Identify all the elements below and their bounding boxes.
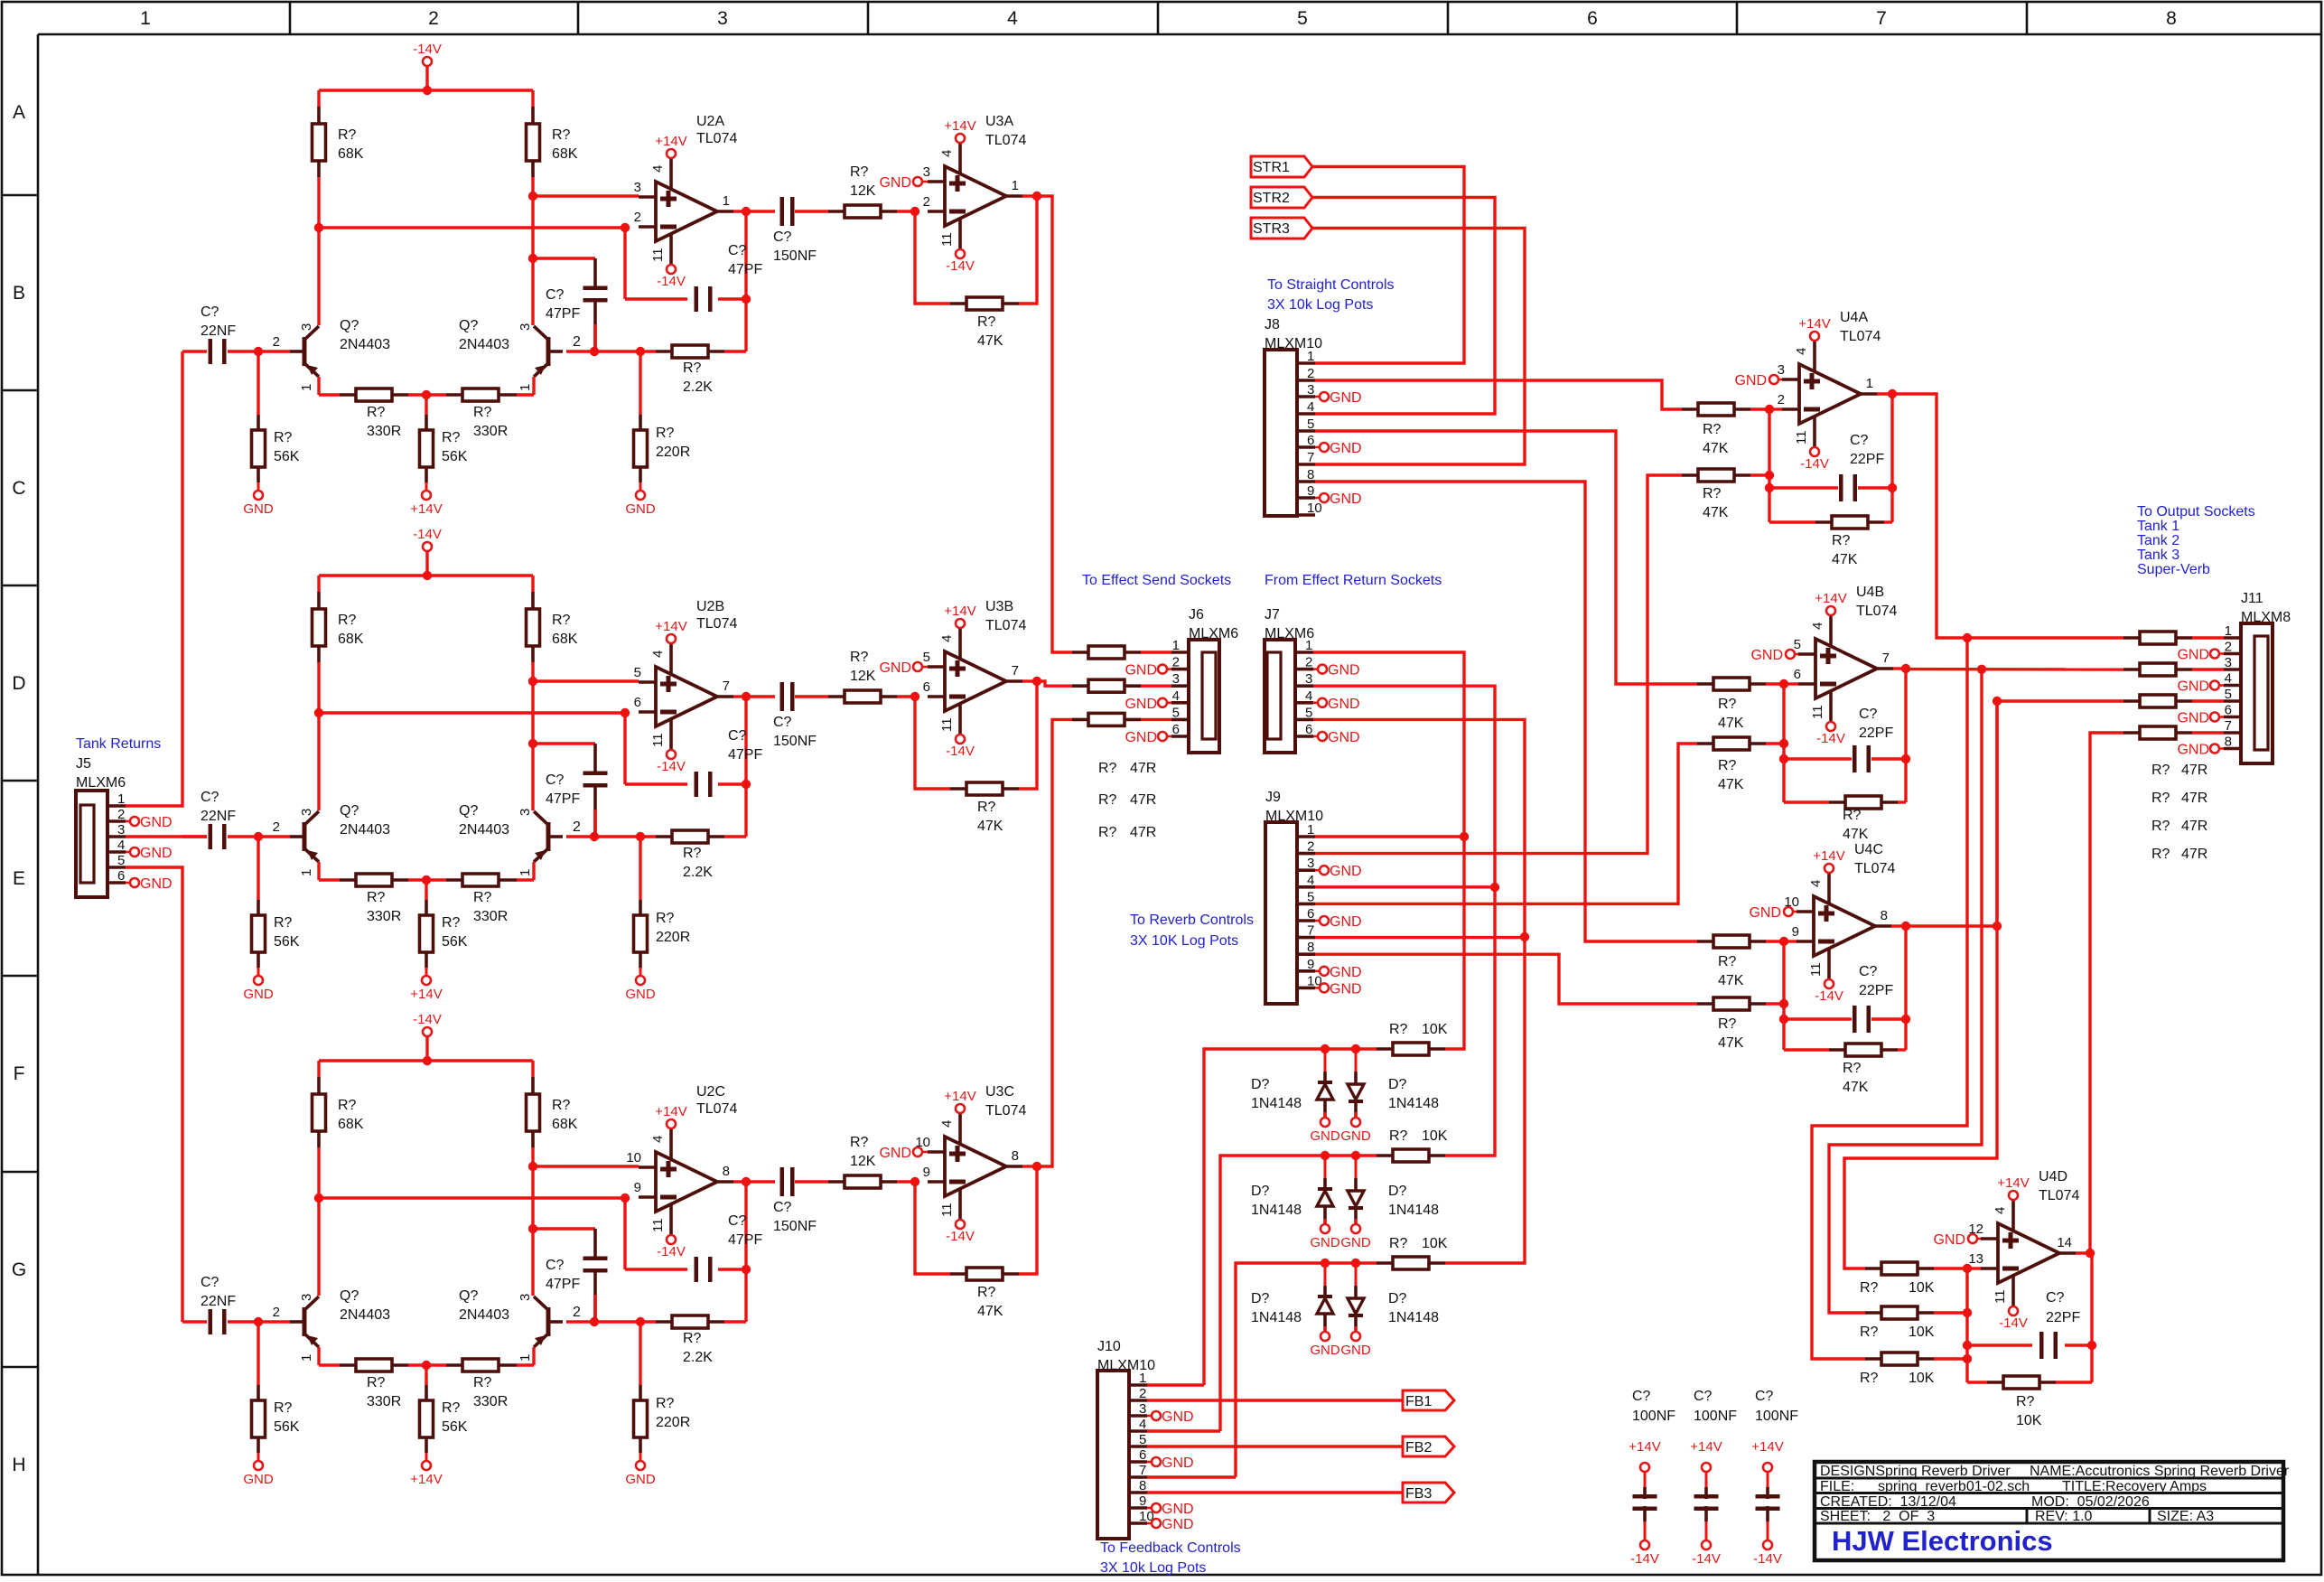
svg-text:C?: C? bbox=[1755, 1389, 1774, 1404]
svg-text:12K: 12K bbox=[850, 1154, 876, 1169]
wire Tank3 branch down to U4D input 1 bbox=[1844, 701, 1997, 1268]
svg-text:R?: R? bbox=[977, 1285, 996, 1300]
svg-text:4: 4 bbox=[1307, 873, 1314, 888]
svg-text:47PF: 47PF bbox=[728, 262, 762, 277]
svg-text:REV: 1.0: REV: 1.0 bbox=[2035, 1509, 2093, 1524]
svg-text:FB3: FB3 bbox=[1405, 1486, 1432, 1502]
resistor R? input 1 (U4A) bbox=[1682, 407, 1698, 411]
svg-text:5: 5 bbox=[1297, 8, 1308, 29]
svg-text:A: A bbox=[13, 102, 25, 123]
svg-text:E: E bbox=[13, 868, 25, 889]
wire U4A output to J11 pin 1 resistor bbox=[1892, 394, 2123, 638]
svg-text:7: 7 bbox=[1882, 651, 1890, 666]
svg-text:8: 8 bbox=[1881, 908, 1888, 923]
svg-text:R?: R? bbox=[473, 405, 492, 420]
resistor R? 47R send 2 bbox=[1072, 684, 1088, 688]
ground flag diode right (clamp 1) bbox=[1351, 1118, 1360, 1127]
svg-text:+14V: +14V bbox=[655, 619, 686, 634]
svg-text:+14V: +14V bbox=[410, 987, 442, 1002]
connector J5 MLXM6 Tank Returns bbox=[76, 791, 107, 897]
svg-text:9: 9 bbox=[1139, 1493, 1146, 1509]
svg-text:U2A: U2A bbox=[696, 114, 724, 129]
svg-text:4: 4 bbox=[1305, 688, 1312, 704]
svg-text:6: 6 bbox=[634, 695, 641, 710]
svg-text:11: 11 bbox=[939, 1203, 955, 1217]
svg-text:11: 11 bbox=[1808, 962, 1824, 977]
svg-text:3: 3 bbox=[1778, 362, 1785, 378]
svg-text:To Straight Controls: To Straight Controls bbox=[1267, 277, 1395, 293]
svg-text:5: 5 bbox=[634, 665, 641, 680]
svg-text:TL074: TL074 bbox=[985, 1103, 1026, 1119]
svg-text:47K: 47K bbox=[1718, 1035, 1744, 1051]
svg-text:R?: R? bbox=[1098, 761, 1117, 776]
ground flag at U4B non-inverting input bbox=[1794, 653, 1798, 656]
wire U3B output to 47R send resistor 2 bbox=[1037, 681, 1072, 686]
svg-text:11: 11 bbox=[1794, 430, 1809, 445]
svg-text:1N4148: 1N4148 bbox=[1388, 1096, 1439, 1111]
svg-text:3: 3 bbox=[634, 180, 641, 195]
svg-text:FB1: FB1 bbox=[1405, 1394, 1432, 1409]
svg-text:U3A: U3A bbox=[985, 114, 1013, 129]
op-amp U3B TL074 (block B) bbox=[945, 651, 1006, 711]
svg-text:R?: R? bbox=[1389, 1236, 1408, 1251]
wire left collector vertical (block C) bbox=[317, 1147, 320, 1296]
capacitor C? 22PF U4D feedback bbox=[1967, 1343, 2032, 1346]
svg-text:MLXM6: MLXM6 bbox=[1265, 626, 1314, 641]
svg-text:150NF: 150NF bbox=[773, 734, 817, 749]
svg-text:6: 6 bbox=[1587, 8, 1598, 29]
svg-text:47K: 47K bbox=[1703, 505, 1729, 520]
resistor R? 10K U4D feedback bbox=[1967, 1381, 1987, 1383]
svg-text:R?: R? bbox=[656, 1396, 675, 1411]
svg-text:2N4403: 2N4403 bbox=[459, 822, 509, 838]
svg-text:GND: GND bbox=[1125, 663, 1157, 679]
svg-text:330R: 330R bbox=[367, 424, 401, 439]
svg-text:R?: R? bbox=[977, 800, 996, 815]
power flag -14V (block A) bbox=[423, 57, 432, 66]
wire left collector vertical (block A) bbox=[317, 177, 320, 325]
svg-text:5: 5 bbox=[1305, 705, 1312, 720]
svg-text:R?: R? bbox=[1389, 1022, 1408, 1037]
svg-text:B: B bbox=[13, 283, 25, 304]
ground flag below base 56K (block B) bbox=[254, 976, 263, 985]
svg-text:G: G bbox=[12, 1259, 26, 1280]
power flag -14V (block C) bbox=[423, 1027, 432, 1036]
svg-text:10K: 10K bbox=[1909, 1325, 1935, 1340]
svg-text:GND: GND bbox=[1734, 373, 1767, 388]
svg-text:Q?: Q? bbox=[340, 318, 359, 333]
svg-text:C?: C? bbox=[1694, 1389, 1713, 1404]
svg-text:TITLE:Recovery Amps: TITLE:Recovery Amps bbox=[2062, 1479, 2207, 1494]
wire U3C feedback loop (block C) bbox=[915, 1182, 950, 1274]
net flag STR3 bbox=[1251, 218, 1312, 239]
svg-text:68K: 68K bbox=[338, 146, 364, 162]
wire U4C output up to J11 pin 5 resistor bbox=[1906, 701, 2123, 926]
svg-text:C?: C? bbox=[2046, 1290, 2065, 1306]
svg-text:1: 1 bbox=[518, 384, 533, 391]
svg-text:47R: 47R bbox=[1130, 761, 1156, 776]
svg-text:GND: GND bbox=[2177, 648, 2209, 663]
svg-text:+14V: +14V bbox=[944, 604, 975, 619]
svg-text:56K: 56K bbox=[442, 934, 468, 950]
svg-text:330R: 330R bbox=[473, 424, 508, 439]
svg-text:2: 2 bbox=[2225, 640, 2232, 655]
connector J7 MLXM6 effect return bbox=[1265, 640, 1295, 753]
svg-text:J9: J9 bbox=[1265, 790, 1281, 805]
svg-text:R?: R? bbox=[1389, 1128, 1408, 1144]
svg-text:8: 8 bbox=[723, 1164, 730, 1179]
op-amp U2A TL074 (block A) bbox=[656, 182, 717, 241]
svg-text:DESIGNSpring Reverb Driver: DESIGNSpring Reverb Driver bbox=[1820, 1464, 2011, 1479]
power flag -14V decoupling 1 bbox=[1640, 1540, 1649, 1549]
svg-text:R?: R? bbox=[442, 915, 461, 931]
wire Tank1 branch down to U4D input 3 bbox=[1812, 638, 1967, 1359]
power flag +14V below 56K (block A) bbox=[422, 491, 431, 500]
svg-text:TL074: TL074 bbox=[1856, 604, 1897, 619]
svg-text:3: 3 bbox=[1305, 671, 1312, 687]
svg-text:To Output Sockets: To Output Sockets bbox=[2137, 504, 2255, 520]
resistor R? 47K feedback (U4B) bbox=[1784, 800, 1829, 803]
resistor R? 47R output 1 bbox=[2123, 636, 2140, 640]
svg-text:GND: GND bbox=[1330, 864, 1362, 879]
svg-text:68K: 68K bbox=[552, 1117, 578, 1132]
svg-text:22PF: 22PF bbox=[1859, 725, 1893, 741]
svg-text:-14V: -14V bbox=[946, 1229, 975, 1244]
svg-text:To Reverb Controls: To Reverb Controls bbox=[1130, 913, 1254, 928]
svg-text:R?: R? bbox=[656, 911, 675, 926]
svg-text:4: 4 bbox=[1993, 1207, 2008, 1214]
svg-text:22NF: 22NF bbox=[201, 1294, 236, 1309]
resistor R? 12K (block A) bbox=[828, 210, 845, 213]
wire STR2 to J8 pin 4 bbox=[1312, 198, 1495, 415]
svg-text:330R: 330R bbox=[367, 1394, 401, 1409]
wire STR3 to J8 pin 7 bbox=[1312, 229, 1525, 465]
svg-text:J6: J6 bbox=[1189, 607, 1204, 623]
resistor R? 220R (block B) bbox=[639, 837, 641, 900]
svg-text:2N4403: 2N4403 bbox=[340, 822, 390, 838]
svg-text:1: 1 bbox=[117, 791, 125, 807]
svg-text:2: 2 bbox=[573, 819, 581, 835]
svg-text:D?: D? bbox=[1251, 1291, 1270, 1306]
svg-text:10K: 10K bbox=[2016, 1413, 2042, 1428]
svg-text:J7: J7 bbox=[1265, 607, 1280, 623]
svg-text:3: 3 bbox=[1307, 856, 1314, 871]
wire J8 pin 2 to U4A input resistor bbox=[1315, 380, 1682, 409]
wire STR1 to J8 pin 1 bbox=[1312, 167, 1464, 364]
svg-text:GND: GND bbox=[1310, 1343, 1340, 1358]
svg-text:C?: C? bbox=[1859, 964, 1878, 979]
svg-text:3: 3 bbox=[1139, 1401, 1146, 1417]
svg-text:7: 7 bbox=[1012, 663, 1019, 679]
svg-text:3: 3 bbox=[117, 822, 125, 838]
svg-text:MLXM6: MLXM6 bbox=[1189, 626, 1238, 641]
svg-text:GND: GND bbox=[1330, 914, 1362, 930]
wire base node to 2.2K (block B) bbox=[594, 835, 656, 838]
svg-text:4: 4 bbox=[939, 1120, 955, 1128]
svg-text:J10: J10 bbox=[1097, 1339, 1121, 1354]
wire clamp rail 1 from J10 bbox=[1204, 1049, 1377, 1385]
svg-text:Tank 1: Tank 1 bbox=[2137, 519, 2179, 534]
svg-text:Tank 3: Tank 3 bbox=[2137, 548, 2179, 563]
svg-text:R?: R? bbox=[1718, 697, 1737, 712]
svg-text:13: 13 bbox=[1968, 1251, 1983, 1267]
svg-text:4: 4 bbox=[2225, 671, 2232, 687]
svg-text:GND: GND bbox=[2177, 743, 2209, 758]
svg-text:GND: GND bbox=[1330, 491, 1362, 507]
svg-text:4: 4 bbox=[650, 1136, 666, 1143]
resistor R? 330R left (block C) bbox=[340, 1363, 356, 1367]
resistor R? 68K right (block C) bbox=[531, 1077, 535, 1094]
svg-text:3: 3 bbox=[518, 1294, 533, 1301]
svg-text:47R: 47R bbox=[2181, 791, 2207, 806]
svg-text:11: 11 bbox=[650, 1218, 666, 1232]
svg-text:2: 2 bbox=[117, 807, 125, 822]
svg-text:STR2: STR2 bbox=[1253, 191, 1290, 206]
svg-text:C?: C? bbox=[773, 1200, 792, 1215]
svg-text:R?: R? bbox=[656, 426, 675, 441]
ground flag below base 56K (block A) bbox=[254, 491, 263, 500]
svg-text:68K: 68K bbox=[552, 146, 578, 162]
svg-text:8: 8 bbox=[2225, 735, 2232, 750]
diode D? 1N4148 right (clamp 1) bbox=[1355, 1049, 1358, 1084]
resistor R? input 1 (U4C) bbox=[1697, 940, 1713, 943]
ground flag J8 pin 3 bbox=[1315, 396, 1320, 398]
transistor Q? 2N4403 left (block A) bbox=[303, 337, 307, 366]
wire U3B output (block B) bbox=[1022, 679, 1037, 682]
svg-text:GND: GND bbox=[1340, 1128, 1371, 1144]
svg-text:R?: R? bbox=[552, 1098, 571, 1113]
svg-text:4: 4 bbox=[1810, 623, 1825, 630]
svg-text:+14V: +14V bbox=[1798, 316, 1830, 332]
svg-text:TL074: TL074 bbox=[1854, 861, 1895, 876]
wire clamp rail 2 from J10 bbox=[1220, 1156, 1377, 1431]
ground flag J10 pin 3 bbox=[1147, 1415, 1152, 1418]
svg-text:47R: 47R bbox=[2181, 763, 2207, 778]
svg-text:C?: C? bbox=[1850, 433, 1869, 448]
svg-text:8: 8 bbox=[1307, 467, 1314, 482]
resistor R? 12K (block B) bbox=[828, 695, 845, 698]
resistor R? 330R right (block A) bbox=[426, 393, 446, 396]
svg-text:GND: GND bbox=[1125, 697, 1157, 712]
connector J8 MLXM10 To Straight Controls bbox=[1265, 350, 1297, 516]
svg-text:7: 7 bbox=[1139, 1463, 1146, 1478]
svg-text:47PF: 47PF bbox=[546, 1277, 580, 1292]
svg-text:R?: R? bbox=[473, 890, 492, 905]
svg-text:NAME:Accutronics Spring Reverb: NAME:Accutronics Spring Reverb Driver bbox=[2030, 1464, 2290, 1479]
svg-text:-14V: -14V bbox=[1999, 1315, 2028, 1331]
svg-text:R?: R? bbox=[850, 164, 869, 180]
svg-text:C: C bbox=[12, 478, 25, 499]
svg-text:GND: GND bbox=[1162, 1456, 1194, 1471]
svg-text:2: 2 bbox=[923, 194, 930, 210]
wire J10 pin 2 to FB1 bbox=[1147, 1399, 1403, 1401]
wire feedback rail to op-amp inverting input (block B) bbox=[319, 711, 625, 714]
capacitor C? 47PF collector-base (block C) bbox=[533, 1227, 595, 1230]
capacitor C? 22NF input (block C) bbox=[182, 1320, 207, 1323]
svg-text:FILE:: FILE: bbox=[1820, 1479, 1854, 1494]
svg-text:SHEET: 2 OF 3: SHEET: 2 OF 3 bbox=[1820, 1509, 1935, 1524]
svg-text:GND: GND bbox=[625, 501, 656, 517]
power flag +14V below 56K (block C) bbox=[422, 1461, 431, 1470]
ground flag J7 pin 4 bbox=[1313, 701, 1318, 704]
wire J9 pin 2 to U4A second input resistor bbox=[1315, 475, 1682, 854]
ground flag diode left (clamp 2) bbox=[1321, 1224, 1330, 1233]
svg-text:-14V: -14V bbox=[657, 274, 686, 289]
svg-text:Super-Verb: Super-Verb bbox=[2137, 562, 2210, 577]
diode D? 1N4148 right (clamp 2) bbox=[1355, 1156, 1358, 1191]
svg-text:2N4403: 2N4403 bbox=[459, 1307, 509, 1323]
capacitor C? 22NF input (block B) bbox=[182, 835, 207, 838]
op-amp U2C TL074 (block C) bbox=[656, 1152, 717, 1212]
capacitor C? 22PF feedback (U4A) bbox=[1769, 486, 1838, 489]
wire inverting bus (U4B) bbox=[1782, 684, 1785, 802]
wire U4D output bus bbox=[2090, 1253, 2093, 1382]
diode D? 1N4148 left (clamp 3) bbox=[1324, 1263, 1327, 1296]
svg-text:spring_reverb01-02.sch: spring_reverb01-02.sch bbox=[1878, 1479, 2030, 1494]
capacitor C? 150NF coupling (block B) bbox=[780, 682, 785, 711]
wire output bus (U4C) bbox=[1904, 926, 1907, 1050]
svg-text:56K: 56K bbox=[442, 1419, 468, 1435]
svg-text:7: 7 bbox=[723, 679, 730, 694]
svg-text:3: 3 bbox=[299, 809, 314, 816]
svg-text:R?: R? bbox=[367, 890, 386, 905]
wire U3A feedback loop (block A) bbox=[915, 211, 950, 304]
svg-text:D?: D? bbox=[1388, 1291, 1407, 1306]
svg-text:Q?: Q? bbox=[340, 803, 359, 819]
svg-text:GND: GND bbox=[1330, 981, 1362, 997]
svg-text:9: 9 bbox=[1307, 957, 1314, 972]
ground flag at U3C non-inverting input (block C) bbox=[922, 1151, 928, 1154]
svg-text:11: 11 bbox=[939, 717, 955, 732]
svg-text:12K: 12K bbox=[850, 669, 876, 684]
wire emitter right (block C) bbox=[532, 1347, 535, 1365]
resistor R? 330R right (block C) bbox=[426, 1363, 446, 1366]
svg-text:J11: J11 bbox=[2241, 591, 2263, 606]
wire U4D output up to J11 pin 7 resistor bbox=[2076, 1251, 2092, 1254]
svg-text:C?: C? bbox=[546, 287, 565, 303]
wire 2.2K up to op-amp output (block C) bbox=[744, 1182, 747, 1322]
wire feedback rail to op-amp inverting input (block C) bbox=[319, 1196, 625, 1199]
svg-text:U2B: U2B bbox=[696, 599, 724, 614]
wire J9 pin 8 to U4C second input resistor bbox=[1315, 954, 1697, 1004]
wire J10 pin 5 to FB2 bbox=[1147, 1445, 1403, 1447]
svg-text:10: 10 bbox=[1307, 501, 1322, 516]
capacitor C? 47PF collector-base (block B) bbox=[533, 742, 595, 744]
svg-text:R?: R? bbox=[338, 1098, 357, 1113]
svg-text:F: F bbox=[14, 1063, 25, 1084]
svg-text:1N4148: 1N4148 bbox=[1388, 1310, 1439, 1325]
svg-text:2.2K: 2.2K bbox=[683, 1350, 713, 1365]
connector J9 MLXM10 To Reverb Controls bbox=[1265, 822, 1297, 1004]
svg-text:1N4148: 1N4148 bbox=[1251, 1203, 1302, 1218]
svg-text:TL074: TL074 bbox=[2039, 1188, 2079, 1203]
svg-text:-14V: -14V bbox=[1800, 456, 1829, 472]
svg-text:56K: 56K bbox=[442, 449, 468, 464]
svg-text:R?: R? bbox=[1718, 758, 1737, 773]
svg-text:150NF: 150NF bbox=[773, 248, 817, 264]
wire J8 pin 8 to U4C input resistor bbox=[1315, 482, 1697, 941]
svg-text:U4A: U4A bbox=[1840, 310, 1868, 325]
op-amp U3A TL074 (block A) bbox=[945, 166, 1006, 226]
svg-text:D?: D? bbox=[1388, 1077, 1407, 1092]
svg-text:47PF: 47PF bbox=[728, 1232, 762, 1248]
svg-text:STR3: STR3 bbox=[1253, 221, 1290, 237]
svg-text:R?: R? bbox=[1718, 1016, 1737, 1032]
svg-text:U4D: U4D bbox=[2039, 1169, 2067, 1184]
resistor R? 2.2K (block A) bbox=[672, 345, 708, 358]
svg-text:U4C: U4C bbox=[1854, 842, 1883, 857]
svg-text:6: 6 bbox=[2225, 703, 2232, 718]
svg-text:3: 3 bbox=[518, 809, 533, 816]
ground flag diode right (clamp 2) bbox=[1351, 1224, 1360, 1233]
diode D? 1N4148 left (clamp 2) bbox=[1324, 1156, 1327, 1189]
resistor R? 47R output 4 bbox=[2123, 731, 2140, 735]
svg-text:GND: GND bbox=[879, 175, 911, 191]
svg-text:R?: R? bbox=[2151, 791, 2170, 806]
svg-text:330R: 330R bbox=[473, 1394, 508, 1409]
svg-text:R?: R? bbox=[1098, 825, 1117, 840]
svg-text:150NF: 150NF bbox=[773, 1219, 817, 1234]
wire inverting bus (U4A) bbox=[1768, 409, 1770, 522]
resistor R? 47K U3C feedback (block C) bbox=[950, 1272, 966, 1276]
svg-text:3: 3 bbox=[717, 8, 728, 29]
ground flag J5 pin 4 bbox=[126, 851, 130, 854]
svg-text:11: 11 bbox=[650, 248, 666, 262]
wire emitter left to 330R (block C) bbox=[317, 1347, 320, 1365]
svg-text:R?: R? bbox=[850, 1135, 869, 1150]
svg-text:4: 4 bbox=[1172, 688, 1180, 704]
svg-text:+14V: +14V bbox=[655, 1104, 686, 1119]
wire non-inverting input (block B) bbox=[533, 679, 639, 682]
svg-text:22PF: 22PF bbox=[1859, 983, 1893, 998]
wire emitter right (block B) bbox=[532, 862, 535, 880]
svg-text:47R: 47R bbox=[1130, 825, 1156, 840]
svg-text:GND: GND bbox=[1328, 663, 1360, 679]
svg-text:100NF: 100NF bbox=[1755, 1409, 1798, 1424]
capacitor C? 22PF feedback (U4B) bbox=[1784, 757, 1852, 760]
svg-text:MLXM6: MLXM6 bbox=[76, 775, 126, 791]
svg-text:-14V: -14V bbox=[657, 1244, 686, 1259]
svg-text:+14V: +14V bbox=[655, 134, 686, 149]
svg-text:6: 6 bbox=[1139, 1447, 1146, 1463]
svg-text:6: 6 bbox=[1172, 722, 1180, 737]
svg-text:11: 11 bbox=[939, 232, 955, 247]
svg-text:C?: C? bbox=[728, 243, 747, 258]
svg-text:-14V: -14V bbox=[1816, 731, 1845, 746]
svg-text:12K: 12K bbox=[850, 183, 876, 199]
ground flag at U4C non-inverting input bbox=[1792, 911, 1797, 913]
resistor R? 47K feedback (U4C) bbox=[1784, 1048, 1829, 1051]
wire J9 pin 1 to clamp net 1 bbox=[1315, 835, 1464, 838]
svg-text:2N4403: 2N4403 bbox=[459, 337, 509, 352]
svg-text:D: D bbox=[12, 673, 25, 694]
resistor R? 56K emitter bias (block B) bbox=[425, 880, 427, 900]
svg-text:-14V: -14V bbox=[1753, 1551, 1782, 1567]
svg-text:C?: C? bbox=[201, 1275, 219, 1290]
wire emitter left to 330R (block B) bbox=[317, 862, 320, 880]
resistor R? 10K (clamp 2) bbox=[1377, 1154, 1393, 1157]
svg-text:-14V: -14V bbox=[1630, 1551, 1659, 1567]
svg-text:1: 1 bbox=[1172, 638, 1180, 653]
svg-text:22NF: 22NF bbox=[201, 323, 236, 339]
svg-text:R?: R? bbox=[367, 405, 386, 420]
capacitor C? 150NF coupling (block A) bbox=[780, 197, 785, 226]
wire top rail (block A) bbox=[319, 89, 533, 91]
svg-text:47K: 47K bbox=[1843, 1080, 1869, 1095]
svg-text:TL074: TL074 bbox=[985, 133, 1026, 148]
svg-text:220R: 220R bbox=[656, 930, 690, 945]
svg-text:4: 4 bbox=[650, 165, 666, 173]
